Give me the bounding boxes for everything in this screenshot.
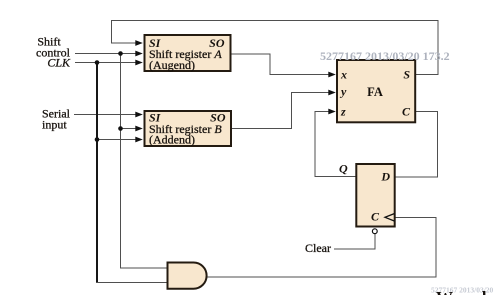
junction on shift-control line — [118, 51, 123, 56]
svg-text:CLK: CLK — [47, 56, 71, 70]
arrow CLK into register B — [135, 137, 143, 143]
arrow shift control into register A — [135, 51, 143, 57]
wire FA C output to flip-flop D — [395, 112, 438, 177]
junction shift-control at register B — [118, 126, 123, 131]
svg-text:(Addend): (Addend) — [149, 132, 195, 146]
svg-text:FA: FA — [367, 85, 383, 99]
wire branch shift-control to register B — [121, 128, 138, 130]
wire AND output to flip-flop C — [207, 218, 437, 278]
svg-text:D: D — [380, 170, 390, 184]
wire CLK vertical (thick) — [96, 63, 98, 283]
arrow CLK into register A — [135, 60, 143, 66]
svg-text:y: y — [339, 85, 347, 99]
arrow into FA z — [328, 109, 336, 115]
flip-flop clear bubble — [372, 229, 377, 234]
wire branch CLK to register B — [97, 139, 137, 141]
junction on CLK line — [95, 60, 100, 65]
shift register B box — [145, 110, 232, 146]
flip-flop clock edge symbol — [385, 214, 395, 222]
wire CLK to register A — [75, 62, 137, 64]
arrow serial input into register B — [135, 112, 143, 118]
svg-text:W: W — [436, 288, 453, 295]
svg-text:S: S — [403, 68, 410, 82]
shift register A box — [145, 35, 231, 72]
wire Shift control to register A — [75, 53, 137, 55]
svg-text:Clear: Clear — [305, 241, 331, 255]
arrow shift control into register B — [135, 126, 143, 132]
arrow into SI of register A — [135, 40, 143, 46]
arrow into FA x — [328, 72, 336, 78]
wire Clear to bubble — [334, 234, 375, 249]
svg-text:input: input — [42, 118, 67, 132]
wire S feedback: FA S output to SI of register A — [112, 21, 439, 75]
wire register B SO to FA y — [231, 93, 331, 129]
svg-text:(Augend): (Augend) — [149, 58, 195, 72]
arrow into FA y — [328, 90, 336, 96]
wire Q output of flip-flop to FA z — [315, 112, 356, 177]
D flip-flop box — [356, 164, 394, 227]
svg-text:d: d — [477, 288, 487, 295]
wire shift-control vertical to register B and AND gate — [121, 54, 168, 269]
svg-text:z: z — [340, 105, 346, 119]
junction CLK at register B — [95, 137, 100, 142]
svg-text:5277167 2013/03/20 173.2: 5277167 2013/03/20 173.2 — [320, 49, 450, 63]
wire register A SO to FA x — [230, 54, 331, 75]
wire Serial input to register B — [74, 114, 137, 116]
wire CLK bottom horizontal into AND gate — [96, 282, 168, 284]
svg-text:x: x — [340, 68, 347, 82]
svg-text:C: C — [402, 105, 411, 119]
full adder FA box — [337, 60, 415, 122]
svg-text:Q: Q — [339, 162, 348, 176]
AND gate — [168, 263, 207, 289]
svg-text:C: C — [371, 210, 380, 224]
